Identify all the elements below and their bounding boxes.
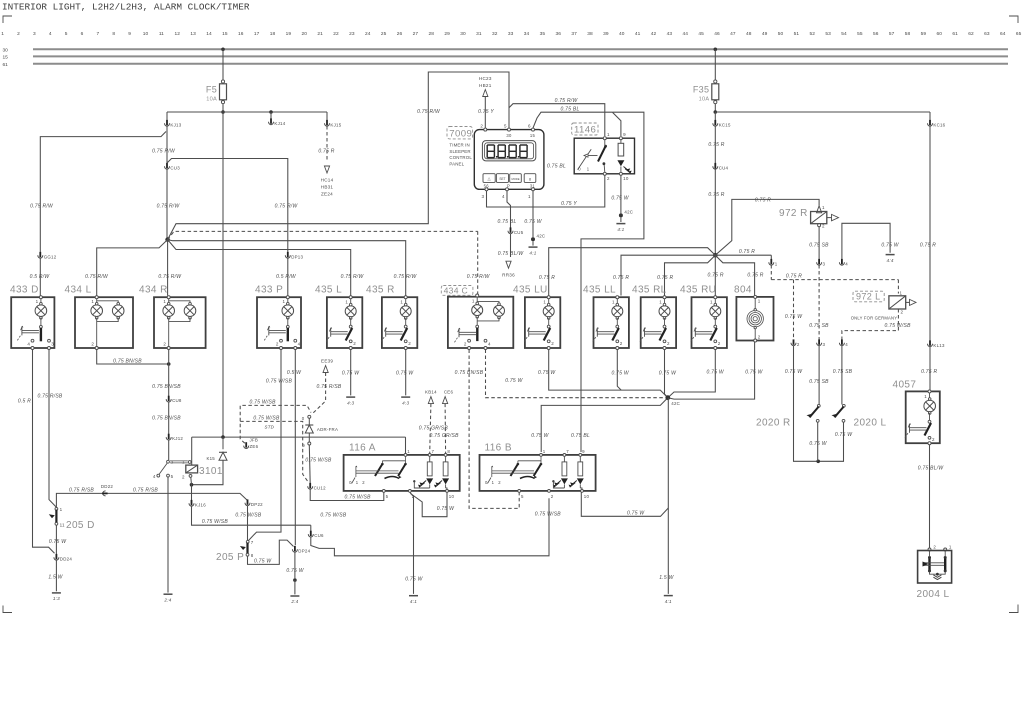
svg-text:1146: 1146 bbox=[574, 125, 596, 136]
svg-text:0.75 W/SB: 0.75 W/SB bbox=[885, 323, 912, 329]
wire dashed KJ15 down bbox=[326, 126, 328, 162]
wire 42C down to ground 4:1 bbox=[667, 398, 669, 594]
svg-text:972 L: 972 L bbox=[856, 292, 881, 302]
svg-text:0.75 W: 0.75 W bbox=[505, 378, 523, 384]
svg-text:0.75 R/W: 0.75 R/W bbox=[417, 109, 441, 115]
wire DP13 to 433 P pin1 bbox=[287, 258, 289, 296]
svg-text:42C: 42C bbox=[624, 209, 633, 214]
svg-text:0.75 BL/W: 0.75 BL/W bbox=[498, 251, 525, 257]
ground 2:4 bbox=[290, 595, 299, 597]
wire F35 output bbox=[714, 104, 716, 112]
svg-text:3101: 3101 bbox=[199, 466, 223, 477]
svg-text:4: 4 bbox=[298, 342, 301, 347]
svg-text:2: 2 bbox=[933, 545, 936, 550]
svg-text:36: 36 bbox=[556, 31, 562, 37]
svg-text:0.75 W/SB: 0.75 W/SB bbox=[535, 511, 562, 517]
svg-text:1: 1 bbox=[587, 167, 590, 172]
svg-text:972 R: 972 R bbox=[779, 208, 808, 219]
svg-text:0.75 R/W: 0.75 R/W bbox=[30, 204, 54, 210]
svg-text:P: P bbox=[507, 183, 510, 188]
svg-text:DP24: DP24 bbox=[298, 548, 310, 553]
svg-text:40: 40 bbox=[619, 31, 625, 37]
svg-text:JFB: JFB bbox=[250, 438, 259, 443]
svg-text:2: 2 bbox=[551, 341, 554, 346]
svg-text:EE39: EE39 bbox=[321, 359, 333, 364]
svg-text:KL13: KL13 bbox=[933, 343, 945, 348]
svg-text:4: 4 bbox=[49, 31, 52, 37]
svg-text:1: 1 bbox=[775, 261, 778, 266]
svg-text:1.5 W: 1.5 W bbox=[48, 575, 63, 581]
svg-text:MODE: MODE bbox=[511, 177, 519, 181]
svg-text:2004 L: 2004 L bbox=[917, 589, 950, 600]
diode ADR-FRA with pins 0 and 9 bbox=[308, 415, 311, 418]
svg-text:64: 64 bbox=[1000, 31, 1006, 37]
svg-text:2: 2 bbox=[91, 342, 94, 347]
svg-text:0.75 R/W: 0.75 R/W bbox=[157, 204, 181, 210]
svg-text:15: 15 bbox=[3, 55, 9, 61]
svg-text:K15: K15 bbox=[206, 456, 215, 461]
svg-text:0.75 R/W: 0.75 R/W bbox=[555, 98, 579, 104]
svg-text:2: 2 bbox=[408, 341, 411, 346]
connector DD24 bbox=[54, 557, 59, 560]
svg-text:7: 7 bbox=[97, 31, 100, 37]
svg-text:47: 47 bbox=[730, 31, 736, 37]
svg-text:12: 12 bbox=[175, 31, 181, 37]
svg-text:DP13: DP13 bbox=[291, 254, 303, 259]
svg-text:0.75 BL: 0.75 BL bbox=[547, 164, 566, 170]
svg-text:0.75 W: 0.75 W bbox=[437, 506, 455, 512]
wire branch to DP13/433 P bbox=[167, 159, 288, 253]
svg-text:5: 5 bbox=[386, 494, 389, 499]
svg-text:5: 5 bbox=[504, 123, 507, 128]
svg-text:205 D: 205 D bbox=[66, 520, 95, 531]
svg-text:0.75 R: 0.75 R bbox=[613, 275, 629, 281]
wire connector2 down to 2020 junction bbox=[794, 346, 844, 462]
node F5 output junction bbox=[221, 110, 225, 114]
svg-text:0.5 W: 0.5 W bbox=[287, 370, 302, 376]
svg-text:2: 2 bbox=[901, 310, 904, 315]
ground 4:1 bbox=[409, 595, 418, 597]
wire 433P pin4 down to DP24 bbox=[294, 350, 296, 546]
switch contact 3/4/5 at 3101 bbox=[167, 460, 170, 463]
svg-text:11: 11 bbox=[159, 31, 164, 37]
connector JFB/ZE6 bbox=[244, 446, 249, 449]
svg-text:15: 15 bbox=[530, 133, 536, 138]
wire 433P pin2 down to 205P pin7 bbox=[249, 350, 282, 541]
connector KL13 bbox=[928, 344, 933, 347]
svg-text:3: 3 bbox=[51, 342, 54, 347]
wire down to 434 R pin1 bbox=[167, 240, 169, 296]
interior lamp 434 L bbox=[75, 297, 133, 348]
wire to 435 L pin1 bbox=[168, 240, 351, 296]
connector DD22 bbox=[103, 491, 106, 496]
svg-text:0.75 R: 0.75 R bbox=[318, 149, 334, 155]
svg-text:SLEEPER: SLEEPER bbox=[449, 149, 470, 154]
connector KJ12 bbox=[166, 437, 171, 440]
connector KJ13 bbox=[166, 112, 168, 122]
svg-text:F35: F35 bbox=[693, 85, 709, 95]
svg-text:435 RL: 435 RL bbox=[632, 285, 667, 296]
reading lamp 435 RL bbox=[641, 297, 676, 348]
svg-text:0.75 W: 0.75 W bbox=[785, 314, 803, 320]
svg-text:2: 2 bbox=[480, 123, 483, 128]
svg-text:1: 1 bbox=[283, 299, 286, 304]
svg-text:CONTROL: CONTROL bbox=[449, 155, 472, 160]
svg-text:45: 45 bbox=[698, 31, 704, 37]
svg-text:18: 18 bbox=[270, 31, 276, 37]
relay 3101 bbox=[170, 460, 188, 462]
svg-text:1: 1 bbox=[543, 300, 546, 305]
svg-text:59: 59 bbox=[921, 31, 927, 37]
svg-text:0.5 R/W: 0.5 R/W bbox=[30, 274, 51, 280]
svg-text:0.75 W/SB: 0.75 W/SB bbox=[266, 378, 293, 384]
svg-text:0.75 W/SB: 0.75 W/SB bbox=[345, 495, 372, 501]
svg-text:0.75 SB: 0.75 SB bbox=[809, 379, 829, 385]
node 434R pin2 junction bbox=[167, 362, 171, 366]
wire 7009 pin2 up to HC23/HB21 bbox=[484, 97, 486, 128]
svg-text:8: 8 bbox=[447, 449, 450, 454]
svg-text:62: 62 bbox=[968, 31, 974, 37]
svg-text:10: 10 bbox=[584, 494, 590, 499]
wire KJ12 to switch pin3 bbox=[168, 440, 170, 461]
svg-text:0.75 R: 0.75 R bbox=[657, 275, 673, 281]
svg-text:16: 16 bbox=[238, 31, 244, 37]
svg-text:23: 23 bbox=[349, 31, 355, 37]
buzzer 804 bbox=[736, 297, 773, 341]
svg-text:4057: 4057 bbox=[893, 380, 917, 391]
svg-text:1: 1 bbox=[900, 291, 903, 296]
dashed harness row 2 (STD) bbox=[240, 421, 309, 482]
svg-text:30: 30 bbox=[506, 133, 512, 138]
svg-text:4:1: 4:1 bbox=[617, 227, 624, 232]
svg-text:0.75 R: 0.75 R bbox=[920, 243, 936, 249]
svg-text:2: 2 bbox=[353, 341, 356, 346]
wire KJ13 to CU3 bbox=[166, 126, 168, 163]
wire KJ16 to CU6 bbox=[192, 506, 311, 525]
svg-text:433 D: 433 D bbox=[10, 285, 39, 296]
svg-text:0.75 R/W: 0.75 R/W bbox=[158, 274, 182, 280]
wire F35 output to KC16 bbox=[715, 111, 930, 113]
wire CU3 down to harness node bbox=[166, 169, 168, 240]
svg-text:INTERIOR LIGHT, L2H2/L2H3, ALA: INTERIOR LIGHT, L2H2/L2H3, ALARM CLOCK/T… bbox=[2, 2, 250, 13]
wire dashed 972L pin2 to connector 4 bbox=[842, 309, 899, 340]
connector KJ16 bbox=[191, 485, 193, 501]
svg-text:0.75 W/SB: 0.75 W/SB bbox=[250, 400, 277, 406]
wire 7009 pin4 to CU5 and RR36 bbox=[507, 191, 511, 229]
svg-text:0.75 W/SB: 0.75 W/SB bbox=[320, 513, 347, 519]
svg-text:4: 4 bbox=[27, 342, 30, 347]
svg-text:3: 3 bbox=[823, 261, 826, 266]
svg-text:6: 6 bbox=[528, 123, 531, 128]
svg-text:0.75 R/SB: 0.75 R/SB bbox=[37, 394, 62, 400]
svg-text:ZE6: ZE6 bbox=[250, 444, 259, 449]
svg-text:0.75 SB: 0.75 SB bbox=[833, 369, 853, 375]
svg-text:CU8: CU8 bbox=[172, 398, 182, 403]
wire 205D pin1 to DD22 to DP22 bbox=[56, 493, 247, 507]
svg-text:4:1: 4:1 bbox=[529, 250, 536, 255]
svg-text:0.75 R/W: 0.75 R/W bbox=[341, 274, 365, 280]
wire 205P pin8 to DP24 bbox=[248, 540, 294, 564]
svg-text:11: 11 bbox=[60, 522, 65, 527]
wire GG12 to 433 D pin1 bbox=[39, 258, 41, 296]
svg-text:2: 2 bbox=[932, 437, 935, 442]
node KJ14 tap bbox=[269, 110, 273, 114]
wire fan to 435 LU pin1 bbox=[549, 248, 716, 296]
svg-text:65: 65 bbox=[1016, 31, 1022, 37]
svg-text:46: 46 bbox=[714, 31, 720, 37]
svg-text:HB21: HB21 bbox=[479, 83, 492, 88]
svg-text:2: 2 bbox=[163, 342, 166, 347]
connector KJ14 (stub) bbox=[270, 112, 272, 120]
svg-text:435 LU: 435 LU bbox=[513, 285, 548, 296]
off-page arrow to HC14/HB31/ZE24 bbox=[324, 166, 329, 173]
svg-text:1: 1 bbox=[492, 480, 495, 485]
svg-text:7: 7 bbox=[251, 540, 254, 545]
svg-text:2: 2 bbox=[758, 334, 761, 339]
svg-text:0.75 R: 0.75 R bbox=[708, 142, 724, 148]
svg-text:4: 4 bbox=[153, 474, 156, 479]
svg-text:0.75 W: 0.75 W bbox=[49, 539, 67, 545]
wire dashed EE39 to diode bbox=[312, 373, 326, 415]
svg-text:435 R: 435 R bbox=[366, 285, 395, 296]
wire 972R pin2 down bbox=[818, 227, 820, 260]
svg-text:434 L: 434 L bbox=[65, 285, 92, 296]
svg-text:24: 24 bbox=[365, 31, 371, 37]
svg-text:54: 54 bbox=[841, 31, 847, 37]
wire KL13 to 4057 bbox=[929, 347, 931, 391]
svg-text:CU4: CU4 bbox=[719, 165, 729, 170]
node 42C bbox=[619, 213, 623, 217]
wire DP22 to 205 P pin7 bbox=[247, 506, 249, 541]
wire 435LU pin2 along upper harness line to 42C bbox=[549, 350, 668, 398]
wire branch to 1146 pin1 bbox=[509, 104, 605, 136]
svg-text:30: 30 bbox=[3, 47, 9, 53]
wire fan to 435 RU pin1 bbox=[714, 255, 716, 295]
svg-text:33: 33 bbox=[508, 31, 514, 37]
node right supply fan bbox=[713, 253, 718, 258]
svg-text:435 RU: 435 RU bbox=[680, 285, 716, 296]
svg-text:0.75 R: 0.75 R bbox=[755, 197, 771, 203]
wire 435LL pin2 join bbox=[617, 350, 621, 391]
off-page arrow RR36 bbox=[506, 261, 511, 268]
wire CU12 to 116A pin5 bbox=[310, 489, 384, 501]
svg-text:CU3: CU3 bbox=[170, 165, 180, 170]
svg-text:2: 2 bbox=[276, 342, 279, 347]
wire supply node to 116A pin1 bbox=[192, 436, 406, 438]
svg-text:2: 2 bbox=[17, 31, 20, 37]
wire F35 supply bbox=[714, 49, 716, 81]
connector DP22 bbox=[245, 503, 250, 506]
ground 4:3 bbox=[346, 396, 355, 398]
switch unit 116 A bbox=[344, 455, 460, 491]
svg-text:0.75 W: 0.75 W bbox=[611, 195, 629, 201]
svg-text:PANEL: PANEL bbox=[449, 161, 464, 166]
bus line 61 bbox=[33, 63, 1008, 65]
wire 3101 coil to supply node bbox=[191, 437, 193, 465]
node 42C ground junction bbox=[665, 395, 670, 400]
svg-text:43: 43 bbox=[667, 31, 673, 37]
svg-text:0.75 W: 0.75 W bbox=[809, 441, 827, 447]
connector DP13 bbox=[285, 255, 290, 258]
svg-text:26: 26 bbox=[397, 31, 403, 37]
svg-text:10A: 10A bbox=[699, 97, 710, 103]
svg-text:22: 22 bbox=[333, 31, 339, 37]
switch unit 116 B bbox=[480, 455, 596, 491]
wire 116B pin10 tap bbox=[581, 492, 668, 516]
svg-text:0.75 W: 0.75 W bbox=[405, 576, 423, 582]
svg-text:RR36: RR36 bbox=[502, 273, 515, 278]
svg-text:17: 17 bbox=[254, 31, 260, 37]
7009 pins: top 2,5,6 / bottom 3,4,1 bbox=[484, 128, 487, 131]
svg-text:2: 2 bbox=[667, 341, 670, 346]
wire KC16 down to KL13 bbox=[929, 126, 931, 341]
wire dashed KB14 to 116A pin7 bbox=[430, 404, 431, 454]
svg-text:0.75 W/SB: 0.75 W/SB bbox=[202, 519, 229, 525]
svg-text:KJ14: KJ14 bbox=[274, 121, 285, 126]
svg-text:0.75 BN/SB: 0.75 BN/SB bbox=[152, 416, 181, 422]
svg-text:0.75 W: 0.75 W bbox=[785, 369, 803, 375]
svg-text:2: 2 bbox=[362, 480, 365, 485]
svg-text:0.75 W: 0.75 W bbox=[659, 371, 677, 377]
svg-text:10: 10 bbox=[143, 31, 149, 37]
wire 7009 pin1 to ground 42C bbox=[532, 191, 534, 238]
svg-text:9: 9 bbox=[582, 449, 585, 454]
svg-text:804: 804 bbox=[734, 285, 752, 296]
interior lamp 433 D bbox=[11, 297, 54, 348]
svg-text:0.75 W: 0.75 W bbox=[254, 558, 272, 564]
svg-text:38: 38 bbox=[587, 31, 593, 37]
svg-text:0.75 W/SB: 0.75 W/SB bbox=[305, 458, 332, 464]
svg-text:1: 1 bbox=[163, 299, 166, 304]
svg-text:0.75 SB: 0.75 SB bbox=[809, 242, 829, 248]
svg-text:63: 63 bbox=[984, 31, 990, 37]
wire KJ13 branch to GG12/433 D bbox=[40, 132, 166, 253]
svg-text:F5: F5 bbox=[206, 85, 217, 95]
svg-text:0.75 W: 0.75 W bbox=[396, 371, 414, 377]
svg-text:9: 9 bbox=[623, 132, 626, 137]
svg-text:0.75 W: 0.75 W bbox=[707, 370, 725, 376]
svg-text:28: 28 bbox=[429, 31, 435, 37]
wire 804 pin2 to 42C bbox=[668, 342, 755, 399]
ground 2:4 bbox=[164, 593, 173, 595]
relay 972 L (only for Germany) bbox=[853, 291, 884, 302]
svg-text:CU5: CU5 bbox=[514, 230, 524, 235]
svg-text:14: 14 bbox=[206, 31, 212, 37]
svg-text:4: 4 bbox=[502, 194, 505, 199]
svg-text:9: 9 bbox=[128, 31, 131, 37]
diode K15 bbox=[222, 437, 224, 449]
connector CU8 bbox=[166, 399, 171, 402]
svg-text:DP22: DP22 bbox=[251, 502, 263, 507]
wire fan to 972 R pin1 bbox=[715, 199, 819, 255]
interior lamp 433 P bbox=[257, 297, 301, 348]
interior lamp 434 R bbox=[154, 297, 206, 348]
svg-text:DD22: DD22 bbox=[101, 484, 114, 489]
svg-text:58: 58 bbox=[905, 31, 911, 37]
svg-text:4:3: 4:3 bbox=[402, 400, 409, 405]
wire 435RL pin2 join bbox=[665, 350, 668, 398]
svg-text:0.75 W: 0.75 W bbox=[612, 371, 630, 377]
connector KC16 bbox=[929, 112, 931, 122]
wire 1146 pin10 to ground 42C bbox=[620, 175, 622, 213]
ground 4:3 bbox=[401, 396, 410, 398]
connector DP24 bbox=[292, 549, 297, 552]
svg-text:ADR-FRA: ADR-FRA bbox=[317, 427, 338, 432]
svg-text:0.75 R/SB: 0.75 R/SB bbox=[316, 384, 341, 390]
svg-text:3: 3 bbox=[482, 194, 485, 199]
svg-text:2: 2 bbox=[464, 342, 467, 347]
node F5/3101 junction bbox=[221, 435, 225, 439]
svg-text:3: 3 bbox=[823, 342, 826, 347]
reading lamp 435 R bbox=[382, 297, 417, 348]
dashed 434C pin4 to 42C bbox=[486, 350, 665, 398]
svg-text:0.75 SB: 0.75 SB bbox=[809, 323, 829, 329]
svg-text:0.75 W: 0.75 W bbox=[286, 568, 304, 574]
svg-text:20: 20 bbox=[302, 31, 308, 37]
wire 0.75 BL down to 116 B pin 9 bbox=[581, 112, 644, 452]
wire dashed to 434 C pin1 bbox=[168, 231, 478, 239]
svg-text:1: 1 bbox=[60, 507, 63, 512]
wire 433 D pin4 down to DD24 bbox=[33, 350, 55, 554]
svg-text:31: 31 bbox=[476, 31, 482, 37]
svg-text:0.75 R/W: 0.75 R/W bbox=[394, 274, 418, 280]
ground 4:1 bbox=[616, 223, 625, 225]
ground 1:3 bbox=[52, 592, 61, 594]
wire fan to 435 RL pin1 bbox=[665, 255, 716, 295]
svg-text:41: 41 bbox=[635, 31, 641, 37]
wire 434R pin2 down bbox=[168, 350, 170, 397]
1146 resistor bbox=[620, 140, 622, 144]
svg-text:2:4: 2:4 bbox=[290, 599, 298, 604]
svg-text:29: 29 bbox=[444, 31, 450, 37]
svg-text:42C: 42C bbox=[671, 401, 680, 406]
wire 205D pin11 to DD24 bbox=[55, 525, 57, 555]
svg-text:1: 1 bbox=[612, 300, 615, 305]
svg-text:34: 34 bbox=[524, 31, 530, 37]
svg-text:0.75 R/SB: 0.75 R/SB bbox=[69, 487, 94, 493]
svg-text:KC15: KC15 bbox=[719, 122, 731, 127]
svg-text:25: 25 bbox=[381, 31, 387, 37]
svg-text:7: 7 bbox=[566, 449, 569, 454]
node 2020 output junction bbox=[816, 460, 820, 464]
bus line 30 bbox=[33, 48, 1008, 50]
svg-text:435 LL: 435 LL bbox=[583, 285, 616, 296]
display window bbox=[482, 141, 535, 161]
connector GG12 bbox=[38, 255, 43, 258]
svg-text:4:1: 4:1 bbox=[665, 599, 672, 604]
connector pin 4 top row with ground 4:4 bbox=[842, 223, 890, 259]
svg-text:1: 1 bbox=[924, 394, 927, 399]
node: bus 30 tap for F5 bbox=[221, 48, 225, 52]
wire dashed 434C pin2 to 116B pin5 bbox=[469, 350, 519, 509]
wire diode to CU12 bbox=[308, 445, 311, 484]
svg-text:435 L: 435 L bbox=[315, 285, 342, 296]
svg-text:0: 0 bbox=[578, 167, 581, 172]
svg-text:CE6: CE6 bbox=[444, 389, 454, 394]
component label box 7009 bbox=[447, 127, 473, 139]
svg-text:0.75 R/W: 0.75 R/W bbox=[467, 274, 491, 280]
svg-text:1: 1 bbox=[758, 298, 761, 303]
svg-text:SET: SET bbox=[499, 177, 505, 181]
svg-text:0.75 GR/SB: 0.75 GR/SB bbox=[419, 425, 449, 431]
node: bus 30 tap for F35 bbox=[714, 48, 718, 52]
svg-text:60: 60 bbox=[937, 31, 943, 37]
svg-text:0.75 Y: 0.75 Y bbox=[561, 201, 577, 207]
wire 435R pin2 to ground 4:3 bbox=[405, 350, 407, 396]
node harness junction left bbox=[165, 237, 170, 242]
wire fan to 804 pin1 bbox=[715, 255, 754, 295]
svg-text:1: 1 bbox=[36, 299, 39, 304]
